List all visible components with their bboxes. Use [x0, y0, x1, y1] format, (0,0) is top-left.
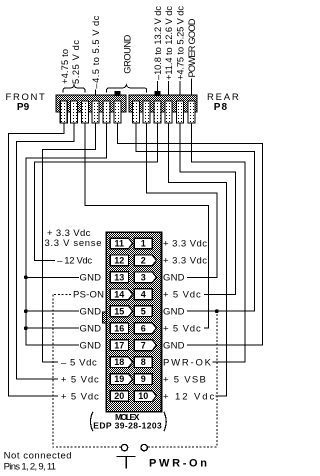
svg-text:17: 17: [114, 340, 124, 350]
pin 16: [110, 323, 128, 334]
connector P8 body: [129, 95, 197, 112]
pin 20: [110, 391, 128, 402]
svg-text:2: 2: [141, 256, 146, 266]
svg-text:16: 16: [114, 323, 124, 333]
pin 18: [110, 357, 132, 368]
wire P8 pin 1 (GND) to Molex pin 5: [136, 123, 254, 311]
wire P9 pin 2 (+5V) to Molex pin 19: [17, 123, 75, 379]
connector side tab: [103, 312, 107, 323]
wire P9 pin 1 (+5V) to Molex pin 20: [9, 123, 64, 396]
svg-text:15: 15: [114, 306, 124, 316]
junction GND at pin 16 row: [24, 326, 28, 330]
wire GND branch to Molex pin 13: [26, 276, 79, 278]
P9 pin 6: [114, 101, 121, 123]
wire GND branch to Molex pin 16: [26, 327, 79, 329]
svg-text:20: 20: [114, 391, 124, 401]
pin 15: [110, 306, 132, 317]
svg-text:PWR-OK: PWR-OK: [163, 357, 212, 368]
wire P9 pin 5 (GND) to Molex pin 17: [26, 123, 107, 345]
pin 10: [134, 391, 156, 402]
key mark on P9 pin 6: [115, 91, 121, 96]
wire P8 pin 3 (-12V) to Molex pin 12: [35, 123, 158, 260]
paren left: [91, 412, 93, 431]
svg-text:1: 1: [141, 239, 146, 249]
key mark on P8 pin 3: [155, 91, 161, 96]
switch S1 lever: [117, 457, 136, 469]
wire P9 pin 6 (GND) to Molex pin 7: [118, 123, 263, 345]
pin 9: [134, 374, 152, 385]
svg-text:+4.75 to: +4.75 to: [60, 49, 70, 84]
svg-text:12: 12: [114, 256, 124, 266]
svg-text:+ 5 Vdc: + 5 Vdc: [61, 391, 99, 402]
pin 17: [110, 340, 128, 351]
svg-text:GND: GND: [80, 341, 102, 352]
svg-text:+ 3.3 Vdc: + 3.3 Vdc: [163, 239, 207, 250]
svg-text:13: 13: [114, 272, 124, 282]
svg-text:+ 5 Vdc: + 5 Vdc: [61, 374, 99, 385]
svg-text:5: 5: [141, 306, 146, 316]
svg-text:3.3 V sense: 3.3 V sense: [45, 238, 102, 249]
svg-text:6: 6: [141, 323, 146, 333]
svg-text:–10.8 to 13.2 V dc: –10.8 to 13.2 V dc: [153, 6, 163, 80]
svg-text:POWER GOOD: POWER GOOD: [187, 18, 197, 77]
connector P9 body: [56, 95, 126, 112]
junction GND at pin 13 row: [24, 275, 28, 279]
svg-text:3: 3: [141, 272, 146, 282]
junction GND at pin 15 row: [24, 309, 28, 313]
switch S1 contact right: [141, 444, 147, 450]
leader line P9 pin 4 label: [95, 90, 97, 96]
P9 pin 1: [60, 101, 67, 123]
svg-text:+ 3.3 Vdc: + 3.3 Vdc: [163, 256, 207, 267]
svg-text:19: 19: [114, 374, 124, 384]
svg-text:9: 9: [141, 374, 146, 384]
svg-text:7: 7: [141, 340, 146, 350]
pin 12: [110, 255, 128, 266]
leader line P8 pin 4 label: [168, 81, 170, 95]
P8 pin 5: [177, 101, 184, 123]
svg-text:GND: GND: [163, 273, 185, 284]
pin 19: [110, 374, 132, 385]
P9 pin 5: [103, 101, 110, 123]
pin 5: [134, 306, 152, 317]
svg-text:PS-ON: PS-ON: [73, 290, 104, 301]
svg-text:GND: GND: [163, 307, 185, 318]
pin 13: [110, 272, 128, 283]
wire P8 pin 4 (+12V) to Molex pin 10: [169, 123, 227, 396]
wire P9 pin 3 (+5V) to Molex pin 6: [85, 123, 208, 328]
svg-text:4: 4: [141, 289, 146, 299]
leader line P8 pin 6 label: [191, 79, 193, 96]
svg-text:GND: GND: [80, 324, 102, 335]
brace GROUND group over P9 pins 5-6 and P8 pins 1-2: [107, 85, 147, 93]
leader line P8 pin 3 label: [157, 81, 159, 95]
svg-text:+11.4 to 12.6 V dc: +11.4 to 12.6 V dc: [164, 6, 174, 80]
pin 8: [134, 357, 152, 368]
P8 pin 3: [154, 101, 161, 123]
wire P8 pin 2 (GND) to Molex pin 3: [146, 123, 216, 277]
P9 pin 4: [92, 101, 99, 123]
wire GND branch to Molex pin 15: [26, 310, 79, 312]
svg-text:+4.75 to 5.25 V dc: +4.75 to 5.25 V dc: [176, 6, 186, 80]
wire switch to GND net (dashed): [148, 311, 217, 447]
pin 11: [110, 238, 132, 249]
P8 pin 2: [143, 101, 150, 123]
svg-text:–4.5 to 5.5 V dc: –4.5 to 5.5 V dc: [91, 15, 101, 88]
pin 6: [134, 323, 156, 334]
svg-text:8: 8: [141, 357, 146, 367]
P8 pin 4: [165, 101, 172, 123]
svg-text:14: 14: [114, 289, 124, 299]
svg-text:P8: P8: [214, 102, 228, 113]
pin 2: [134, 255, 156, 266]
svg-text:+ 5 Vdc: + 5 Vdc: [163, 290, 201, 301]
svg-text:11: 11: [115, 239, 125, 249]
pin 4: [134, 289, 152, 300]
pin 7: [134, 340, 156, 351]
svg-text:+ 12 Vdc: + 12 Vdc: [163, 391, 214, 402]
wire P9 pin 4 (-5V) to Molex pin 18: [43, 123, 96, 362]
P9 pin 3: [81, 101, 88, 123]
svg-text:+ 5 Vdc: + 5 Vdc: [163, 324, 201, 335]
wire P8 pin 6 (POWER GOOD) to Molex pin 8: [192, 123, 246, 362]
wire PS-ON (dashed) from Molex pin 14 to switch: [53, 294, 121, 447]
leader line P8 pin 5 label: [179, 81, 181, 95]
svg-text:– 5 Vdc: – 5 Vdc: [61, 357, 97, 368]
P9 pin 2: [71, 101, 78, 123]
svg-text:5.25 V dc: 5.25 V dc: [71, 40, 81, 84]
svg-text:Pins 1, 2, 9, 11: Pins 1, 2, 9, 11: [4, 462, 57, 473]
svg-text:GND: GND: [80, 273, 102, 284]
svg-text:P9: P9: [17, 102, 30, 113]
wire P8 pin 5 (+5V) to Molex pin 4: [180, 123, 235, 294]
junction switch GND tap at pin 5 row: [215, 309, 219, 313]
brace +5V group over P9 pins 1-3: [63, 85, 85, 93]
switch S1 contact left: [121, 444, 127, 450]
pin 1: [134, 238, 152, 249]
svg-text:Not connected: Not connected: [4, 451, 72, 462]
svg-text:18: 18: [114, 357, 124, 367]
svg-text:GND: GND: [80, 307, 102, 318]
svg-text:+ 5 VSB: + 5 VSB: [163, 374, 206, 385]
P8 pin 1: [132, 101, 139, 123]
svg-text:GROUND: GROUND: [123, 34, 133, 73]
svg-text:10: 10: [138, 391, 148, 401]
svg-text:EDP 39-28-1203: EDP 39-28-1203: [93, 421, 162, 431]
connector U1 MOLEX 20-pin body: [106, 232, 161, 411]
pin 3: [134, 272, 156, 283]
paren right: [164, 412, 166, 431]
P8 pin 6: [188, 101, 195, 123]
pin 14: [110, 289, 132, 300]
svg-text:– 12 Vdc: – 12 Vdc: [57, 256, 92, 267]
svg-text:GND: GND: [163, 341, 185, 352]
